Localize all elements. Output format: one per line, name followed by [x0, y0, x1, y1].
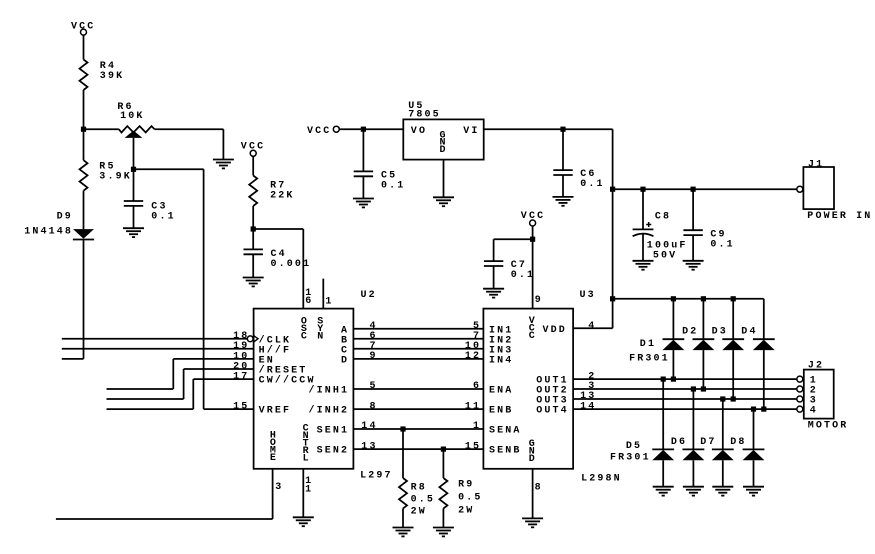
- junction D3 output: [731, 396, 736, 401]
- svg-text:2W: 2W: [411, 507, 427, 518]
- svg-text:1: 1: [305, 484, 313, 495]
- junction D4 output: [761, 407, 766, 412]
- pin number 16 (OSC): [305, 288, 313, 307]
- svg-text:6: 6: [305, 296, 313, 307]
- svg-text:12: 12: [465, 351, 481, 362]
- label D1: [629, 339, 670, 364]
- junction rail D3: [731, 296, 736, 301]
- capacitor C6 0.1: [553, 129, 604, 197]
- svg-text:ENA: ENA: [489, 386, 513, 397]
- wire junction to OSC pin 16: [253, 229, 303, 309]
- svg-text:VCC: VCC: [71, 21, 95, 32]
- potentiometer R6 10K: [117, 102, 154, 170]
- svg-text:0.001: 0.001: [271, 259, 312, 270]
- svg-text:IN4: IN4: [489, 355, 513, 366]
- junction C9: [691, 187, 696, 192]
- svg-text:SEN2: SEN2: [317, 446, 350, 457]
- diode D8 FR301: [743, 409, 765, 487]
- svg-text:D: D: [439, 145, 445, 156]
- svg-text:7805: 7805: [408, 109, 441, 120]
- svg-text:N: N: [317, 331, 323, 342]
- capacitor C9 0.1: [683, 189, 734, 261]
- ground (R8): [393, 527, 414, 529]
- connector pin circle J2-3: [797, 396, 803, 402]
- svg-text:OUT4: OUT4: [536, 406, 569, 417]
- svg-text:3: 3: [275, 482, 283, 493]
- svg-text:D: D: [341, 355, 349, 366]
- resistor R7 22K: [249, 176, 294, 207]
- svg-text:D4: D4: [741, 326, 757, 337]
- junction D7 output: [720, 396, 725, 401]
- junction C7: [530, 237, 535, 242]
- wire B-IN2: [353, 331, 483, 342]
- wire D-IN4: [353, 351, 483, 362]
- svg-text:13: 13: [361, 441, 377, 452]
- svg-text:C: C: [301, 331, 307, 342]
- connector J1 POWER IN: [797, 160, 873, 223]
- wire /CLK pin 18 net: [62, 338, 248, 340]
- wire CNTRL pin 11 to ground: [302, 469, 304, 518]
- svg-text:8: 8: [535, 482, 543, 493]
- wire junction to R6: [84, 128, 119, 130]
- wire OUT1 to J2 pin 1: [573, 371, 797, 382]
- ground (C8): [633, 260, 654, 262]
- ground (pin 11): [293, 516, 314, 518]
- wire R7 to junction: [252, 206, 254, 229]
- ground (U3 pin 8): [522, 517, 543, 519]
- svg-text:1: 1: [473, 421, 481, 432]
- wire OUT3 to J2 pin 3: [573, 391, 797, 402]
- svg-text:9: 9: [535, 295, 543, 306]
- svg-text:FR301: FR301: [610, 453, 651, 464]
- wire SEN2-SENB: [353, 441, 483, 452]
- resistor R8 0.5 2W: [399, 429, 435, 528]
- junction D2 output: [701, 386, 706, 391]
- svg-text:VO: VO: [411, 126, 427, 137]
- svg-text:D7: D7: [700, 437, 716, 448]
- svg-text:14: 14: [580, 401, 596, 412]
- wire /RESET pin 20 net with jog: [107, 369, 254, 399]
- wire SYN pin 1 stub: [322, 279, 324, 309]
- connector pin circle J2-2: [797, 386, 803, 392]
- svg-text:E: E: [270, 453, 276, 464]
- svg-text:VCC: VCC: [521, 211, 545, 222]
- wire R5 to D9: [83, 191, 85, 229]
- ground (D8): [743, 486, 764, 488]
- resistor R4 39K: [80, 60, 125, 91]
- label D5: [610, 441, 651, 464]
- ground (U5 GND): [433, 196, 454, 198]
- ground (D6): [683, 486, 704, 488]
- svg-text:J1: J1: [808, 160, 824, 171]
- svg-text:C8: C8: [655, 212, 671, 223]
- junction D6 output: [691, 386, 696, 391]
- diode D2 FR301: [693, 299, 715, 389]
- svg-text:/INH2: /INH2: [308, 405, 349, 417]
- svg-text:15: 15: [233, 402, 249, 413]
- svg-text:SENA: SENA: [489, 426, 522, 437]
- svg-text:L297: L297: [360, 471, 393, 482]
- ground (C3): [123, 227, 144, 229]
- svg-text:R8: R8: [411, 483, 427, 494]
- ground (D7): [712, 486, 733, 488]
- wire HOME pin 3: [56, 469, 273, 519]
- svg-text:D6: D6: [671, 437, 687, 448]
- wire VCC to R4: [83, 35, 85, 59]
- diode D5 FR301: [652, 379, 674, 487]
- svg-text:VCC: VCC: [241, 141, 265, 152]
- svg-text:SEN1: SEN1: [317, 426, 350, 437]
- wire VCC to VO: [339, 128, 403, 130]
- ground (C4): [243, 277, 264, 279]
- ground (R6): [213, 159, 234, 161]
- wire main power vertical: [612, 129, 614, 328]
- svg-text:15: 15: [465, 441, 481, 452]
- wire SEN1-SENA: [353, 421, 483, 432]
- svg-text:L298N: L298N: [581, 474, 622, 485]
- ground (C9): [683, 260, 704, 262]
- power symbol VCC (top left): [71, 21, 95, 35]
- svg-text:C: C: [529, 331, 535, 342]
- wire /INH1-ENA: [353, 381, 483, 392]
- wire diode supply rail: [613, 298, 764, 300]
- diode D9 1N4148: [24, 212, 94, 240]
- svg-text:3.9K: 3.9K: [99, 172, 132, 183]
- svg-text:1N4148: 1N4148: [24, 226, 73, 237]
- junction C6: [560, 127, 565, 132]
- resistor R5 3.9K: [80, 160, 132, 191]
- junction rail D1: [671, 296, 676, 301]
- junction rail D2: [701, 296, 706, 301]
- connector pin circle J2-1: [797, 376, 803, 382]
- wire H//F pin 19 net: [62, 348, 254, 350]
- svg-text:R9: R9: [458, 480, 474, 491]
- wire VCC to U3 pin 9: [532, 226, 534, 309]
- svg-text:D: D: [529, 454, 535, 465]
- connector J2 MOTOR: [804, 360, 849, 431]
- svg-text:D9: D9: [57, 212, 73, 223]
- wire CW//CCW pin 17 net with jog: [107, 379, 254, 409]
- diode D6 FR301: [683, 389, 705, 487]
- wire R6 right end to ground: [155, 129, 224, 159]
- svg-text:6: 6: [473, 381, 481, 392]
- junction C5: [361, 127, 366, 132]
- power symbol VCC (7805 VO): [307, 126, 339, 137]
- junction R7/C4/OSC: [251, 226, 256, 231]
- junction power rail top: [610, 296, 615, 301]
- wire VDD pin 4: [573, 321, 613, 332]
- svg-text:VCC: VCC: [307, 126, 331, 137]
- svg-text:U3: U3: [580, 290, 596, 301]
- junction power/J1 row: [610, 187, 615, 192]
- svg-text:50V: 50V: [653, 251, 677, 262]
- svg-text:11: 11: [465, 401, 481, 412]
- capacitor C4 0.001: [244, 229, 312, 278]
- svg-text:D2: D2: [682, 326, 698, 337]
- svg-text:ENB: ENB: [489, 406, 513, 417]
- svg-text:17: 17: [233, 372, 249, 383]
- junction D1 output: [671, 377, 676, 382]
- transistor array U3 L298N body: [483, 290, 621, 485]
- wire U3 pin 8 GND to ground: [533, 469, 543, 519]
- svg-text:2W: 2W: [458, 506, 474, 517]
- svg-text:0.1: 0.1: [151, 212, 175, 223]
- connector pin circle J2-4: [797, 406, 803, 412]
- svg-text:14: 14: [361, 421, 377, 432]
- svg-text:8: 8: [369, 401, 377, 412]
- svg-text:0.1: 0.1: [381, 181, 405, 192]
- svg-text:4: 4: [810, 406, 818, 417]
- capacitor C8 100uF 50V electrolytic: [633, 189, 688, 261]
- svg-text:9: 9: [369, 351, 377, 362]
- op-amp U2 L297 body: [254, 290, 393, 482]
- svg-text:VDD: VDD: [543, 325, 567, 336]
- capacitor C3 0.1: [124, 169, 176, 228]
- svg-text:MOTOR: MOTOR: [808, 420, 849, 431]
- clock input bubble U2 pin 18: [247, 336, 258, 343]
- svg-text:0.1: 0.1: [710, 240, 734, 251]
- svg-text:1: 1: [325, 296, 333, 307]
- capacitor C5 0.1: [354, 129, 406, 198]
- svg-text:U2: U2: [361, 290, 377, 301]
- diode D3 FR301: [722, 299, 744, 399]
- junction D8 output: [751, 407, 756, 412]
- junction R8 on SEN1: [400, 426, 405, 431]
- diode D7 FR301: [712, 399, 734, 487]
- svg-text:/INH1: /INH1: [308, 385, 349, 397]
- ground (D5): [653, 486, 674, 488]
- junction C8: [640, 187, 645, 192]
- svg-text:D1: D1: [640, 339, 656, 350]
- junction node wiper/C3/VREF: [131, 167, 136, 172]
- power symbol VCC (R7): [241, 141, 265, 156]
- svg-text:L: L: [303, 453, 309, 464]
- ground (C6): [553, 196, 574, 198]
- wire /INH2-ENB: [353, 401, 483, 412]
- svg-text:CW//CCW: CW//CCW: [259, 375, 316, 387]
- ground (C7): [483, 288, 504, 290]
- wire junction to R5: [83, 129, 85, 160]
- wire EN pin 10 net with jog: [107, 359, 254, 389]
- svg-text:J2: J2: [808, 360, 824, 371]
- junction R9 on SEN2: [441, 447, 446, 452]
- resistor R9 0.5 2W: [439, 449, 482, 527]
- junction R4/R5/R6: [81, 127, 86, 132]
- svg-text:D5: D5: [626, 441, 642, 452]
- svg-text:D3: D3: [712, 326, 728, 337]
- diode D1 FR301: [663, 299, 685, 379]
- wire VCC to R7: [252, 156, 254, 175]
- wire OUT4 to J2 pin 4: [573, 401, 797, 412]
- power symbol VCC (U3 pin 9): [521, 211, 545, 226]
- svg-text:0.5: 0.5: [458, 493, 482, 504]
- svg-text:0.1: 0.1: [580, 179, 604, 190]
- svg-text:5: 5: [369, 381, 377, 392]
- svg-text:10K: 10K: [120, 111, 144, 122]
- svg-text:4: 4: [588, 321, 596, 332]
- wire OUT2 to J2 pin 2: [573, 381, 797, 392]
- svg-text:22K: 22K: [270, 191, 294, 202]
- ground (C5): [353, 198, 374, 200]
- wire U5 GND pin to ground: [443, 160, 445, 198]
- svg-text:VREF: VREF: [259, 406, 292, 417]
- svg-text:D8: D8: [730, 437, 746, 448]
- pin number 11 (CNTRL): [305, 476, 313, 495]
- wire wiper junction to VREF pin 15: [134, 169, 254, 409]
- svg-text:39K: 39K: [100, 71, 124, 82]
- wire D9 cathode down to stub row: [62, 240, 84, 359]
- voltage regulator U5 7805: [403, 101, 483, 160]
- svg-text:0.1: 0.1: [511, 270, 535, 281]
- ground (R9): [433, 527, 454, 529]
- junction D5 output: [661, 377, 666, 382]
- wire VI to power node: [484, 128, 613, 130]
- wire A-IN1: [353, 321, 483, 332]
- wire C-IN3: [353, 341, 483, 352]
- svg-text:POWER IN: POWER IN: [807, 211, 872, 222]
- capacitor C7 0.1: [484, 239, 535, 289]
- diode D4 FR301: [753, 299, 775, 409]
- svg-text:0.5: 0.5: [411, 495, 435, 506]
- wire power row to J1: [613, 188, 797, 190]
- svg-text:FR301: FR301: [629, 353, 670, 364]
- svg-text:SENB: SENB: [489, 446, 522, 457]
- wire R4 to junction: [83, 90, 85, 129]
- svg-text:VI: VI: [463, 126, 479, 137]
